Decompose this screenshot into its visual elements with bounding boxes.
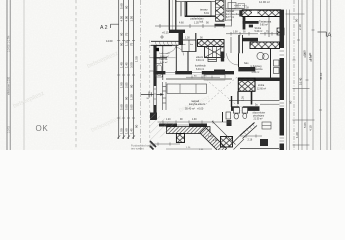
svg-text:konyha-etkezo: konyha-etkezo	[189, 103, 206, 106]
svg-text:furdo wc: furdo wc	[160, 58, 169, 61]
svg-text:Szoba: Szoba	[255, 28, 262, 30]
svg-text:oltozo-eloter: oltozo-eloter	[253, 112, 266, 115]
svg-text:1.90: 1.90	[120, 82, 124, 88]
svg-text:1.20: 1.20	[295, 132, 299, 138]
svg-text:3.50: 3.50	[130, 62, 134, 68]
svg-text:12.90 m²: 12.90 m²	[259, 0, 270, 4]
svg-text:+0.00: +0.00	[197, 108, 204, 111]
svg-text:1.08: 1.08	[233, 32, 238, 34]
svg-text:1:14.5 / 1-1.7%: 1:14.5 / 1-1.7%	[7, 35, 10, 52]
svg-text:elhelyezes 1:200: elhelyezes 1:200	[7, 76, 10, 95]
svg-text:1.35: 1.35	[194, 22, 199, 25]
svg-text:1.45: 1.45	[125, 62, 129, 68]
svg-text:60: 60	[125, 5, 129, 9]
svg-text:60: 60	[130, 84, 134, 88]
svg-text:90: 90	[125, 96, 129, 100]
svg-text:1.30: 1.30	[192, 119, 197, 121]
svg-text:55.40 m²: 55.40 m²	[185, 108, 195, 111]
svg-text:2.16: 2.16	[248, 139, 253, 142]
svg-text:12.60 m²: 12.60 m²	[257, 88, 266, 91]
svg-text:4.10: 4.10	[309, 125, 313, 131]
svg-text:pincelejaro: pincelejaro	[253, 115, 265, 118]
svg-text:km: km	[190, 44, 193, 46]
svg-text:1.50: 1.50	[135, 56, 139, 62]
svg-text:1.10: 1.10	[125, 40, 129, 46]
svg-text:2.05: 2.05	[125, 82, 129, 88]
svg-text:21.50 m²: 21.50 m²	[254, 118, 263, 121]
svg-text:14.00: 14.00	[106, 39, 113, 43]
svg-text:1.45: 1.45	[130, 128, 134, 134]
svg-text:2.38: 2.38	[244, 7, 249, 10]
svg-text:OK: OK	[36, 124, 49, 133]
svg-text:5.05: 5.05	[130, 104, 134, 110]
svg-text:1.50: 1.50	[130, 15, 134, 21]
svg-text:5.00: 5.00	[125, 104, 129, 110]
svg-text:emeleti: emeleti	[234, 4, 242, 7]
svg-text:4.60: 4.60	[179, 22, 184, 25]
svg-text:halo: halo	[244, 63, 249, 65]
svg-text:terv szerint: terv szerint	[131, 147, 144, 151]
svg-text:45.10: 45.10	[319, 72, 323, 80]
svg-text:16.40: 16.40	[299, 77, 303, 85]
svg-text:6.91 m²: 6.91 m²	[196, 68, 204, 71]
svg-text:8.91: 8.91	[204, 12, 209, 15]
svg-text:A 2: A 2	[100, 25, 108, 31]
svg-text:9.91 m²: 9.91 m²	[196, 59, 204, 62]
svg-text:1.26: 1.26	[242, 96, 245, 101]
svg-text:1:14.5: 1:14.5	[7, 126, 10, 133]
svg-text:60: 60	[120, 32, 124, 36]
svg-text:1.30: 1.30	[185, 37, 190, 40]
svg-text:4.00: 4.00	[125, 15, 129, 21]
svg-text:padlasfeljaro: padlasfeljaro	[191, 17, 205, 20]
svg-text:1.60: 1.60	[125, 128, 129, 134]
svg-text:9.60 m²: 9.60 m²	[260, 24, 268, 27]
svg-text:1.49: 1.49	[208, 136, 213, 138]
svg-text:75: 75	[130, 42, 134, 46]
svg-text:5.60: 5.60	[120, 104, 124, 110]
svg-text:1.50: 1.50	[120, 128, 124, 134]
svg-text:2.10: 2.10	[298, 24, 302, 30]
svg-text:haloszoba: haloszoba	[160, 53, 171, 55]
svg-text:+0.15: +0.15	[162, 31, 169, 35]
svg-text:1.35: 1.35	[213, 140, 218, 142]
svg-text:90: 90	[135, 124, 139, 128]
svg-text:4.50: 4.50	[120, 15, 124, 21]
svg-text:Tisztaszoba: Tisztaszoba	[259, 21, 272, 24]
svg-text:1.20: 1.20	[130, 94, 134, 100]
svg-text:1.40: 1.40	[120, 62, 124, 68]
svg-text:5.60: 5.60	[120, 3, 124, 9]
svg-text:10.40 m²: 10.40 m²	[160, 55, 169, 58]
svg-text:5.06: 5.06	[303, 122, 307, 128]
svg-text:60: 60	[289, 100, 293, 104]
svg-text:kolt.: kolt.	[200, 21, 205, 24]
svg-text:7.50: 7.50	[303, 50, 307, 56]
svg-text:75: 75	[125, 32, 129, 36]
svg-text:szoba: szoba	[258, 85, 265, 87]
svg-text:90: 90	[120, 42, 124, 46]
svg-text:16.30: 16.30	[308, 52, 312, 60]
svg-text:4.60 m²: 4.60 m²	[252, 71, 260, 74]
svg-text:90: 90	[295, 18, 299, 22]
svg-text:5.40 m²: 5.40 m²	[255, 30, 263, 33]
